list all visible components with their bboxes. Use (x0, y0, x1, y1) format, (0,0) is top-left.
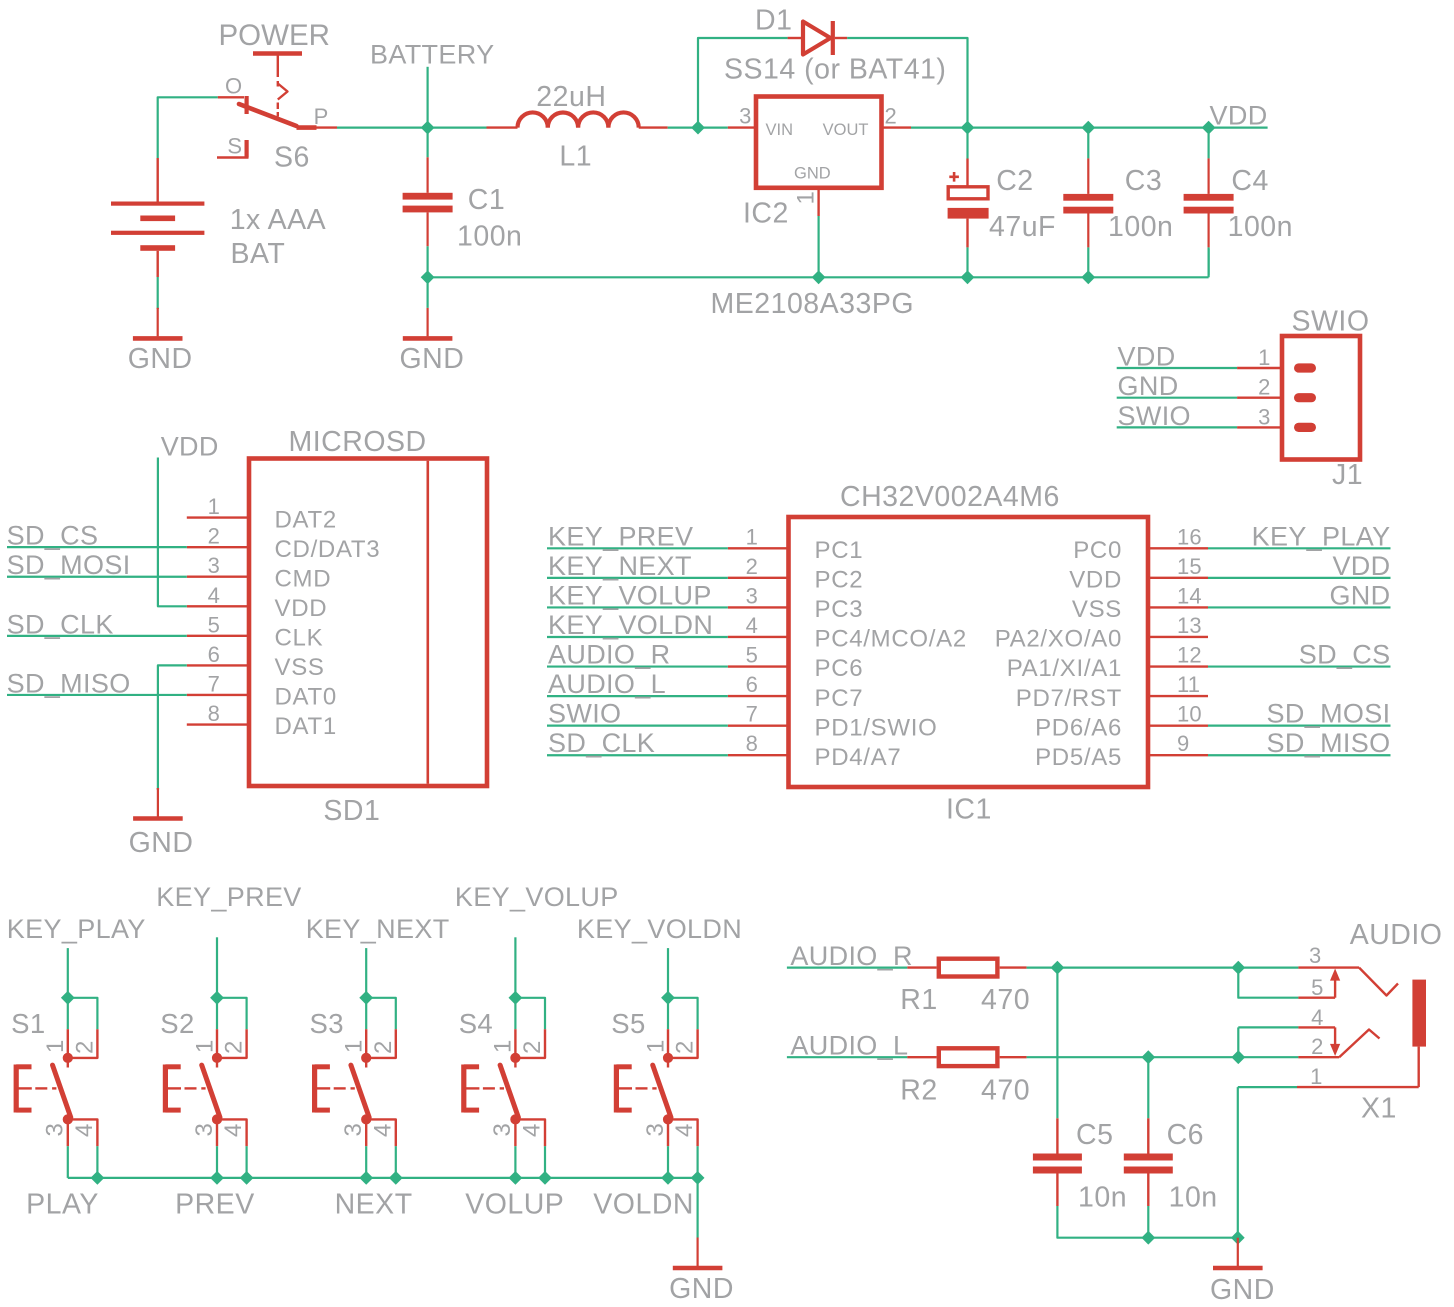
svg-text:SD_MOSI: SD_MOSI (7, 550, 131, 580)
switch S3 lever (351, 1065, 369, 1117)
svg-text:KEY_VOLDN: KEY_VOLDN (577, 914, 742, 944)
voltage regulator IC2 ME2108A33PG (756, 97, 882, 188)
svg-text:4: 4 (369, 1123, 396, 1137)
IC2 pin 3 VIN (728, 126, 756, 128)
svg-text:C1: C1 (468, 184, 505, 216)
wire net AUDIO_R to R1 (787, 966, 907, 968)
wire D1 cathode to VDD node (847, 38, 967, 128)
svg-text:6: 6 (746, 672, 758, 697)
svg-text:2: 2 (208, 524, 220, 549)
X1 pin 2 contact (1298, 1056, 1339, 1058)
resistor R1 470 (907, 966, 936, 968)
svg-text:1: 1 (42, 1039, 69, 1053)
svg-text:DAT0: DAT0 (275, 684, 337, 711)
svg-text:VOLUP: VOLUP (465, 1189, 564, 1221)
wire net KEY_VOLUP to IC1 pin 3 (547, 606, 728, 608)
wire AUDIO_L to C6 (1147, 1057, 1149, 1118)
svg-text:4: 4 (220, 1123, 247, 1137)
svg-text:14: 14 (1177, 583, 1202, 608)
IC1 pin 4 PC4/MCO/A2 (728, 636, 789, 638)
svg-text:100n: 100n (1228, 211, 1293, 243)
wire AUDIO_R to C5 (1056, 968, 1058, 1119)
svg-text:VDD: VDD (275, 595, 328, 622)
svg-text:S1: S1 (11, 1008, 45, 1039)
svg-text:AUDIO_R: AUDIO_R (548, 640, 670, 670)
diode D1 (788, 37, 803, 39)
svg-text:8: 8 (746, 731, 758, 756)
svg-text:PC2: PC2 (815, 567, 864, 594)
svg-text:PD4/A7: PD4/A7 (815, 744, 902, 771)
inductor L1 22uH (487, 126, 518, 128)
capacitor C2 47uF polarized (966, 128, 968, 159)
svg-text:VSS: VSS (275, 654, 325, 681)
wire net SD_MISO to IC1 pin 9 (1208, 754, 1391, 756)
X1 pin 4 contact with down arrow (1238, 1026, 1298, 1028)
J1 pin 2 (1237, 397, 1282, 399)
svg-text:S3: S3 (310, 1008, 344, 1039)
svg-text:CMD: CMD (275, 565, 332, 592)
svg-text:KEY_PLAY: KEY_PLAY (7, 914, 146, 944)
IC1 pin 15 VDD (1148, 577, 1208, 579)
IC1 pin 14 VSS (1148, 606, 1208, 608)
IC1 pin 12 PA1/XI/A1 (1148, 665, 1208, 667)
svg-text:1: 1 (191, 1039, 218, 1053)
wire C5 to gnd rail (1057, 1206, 1148, 1238)
svg-text:VDD: VDD (1332, 551, 1390, 581)
svg-text:S2: S2 (160, 1008, 194, 1039)
svg-text:5: 5 (746, 643, 758, 668)
wire L1 to IC2 VIN node (668, 126, 728, 128)
IC1 pin 11 PD7/RST (1148, 695, 1208, 697)
wire net VDD to J1 pin 1 (1117, 367, 1237, 369)
wire net KEY_PLAY to S1 (67, 948, 69, 998)
mcu IC1 CH32V002A4M6 (789, 517, 1149, 787)
wire net SD_CS to SD1 (7, 546, 187, 548)
svg-text:2: 2 (1311, 1034, 1323, 1059)
svg-text:PC6: PC6 (815, 655, 864, 682)
svg-text:3: 3 (746, 583, 758, 608)
wire net VDD label stub (1209, 126, 1268, 128)
junction S5 top node (661, 991, 675, 1005)
svg-text:100n: 100n (1108, 211, 1173, 243)
svg-text:47uF: 47uF (989, 211, 1056, 243)
svg-text:CH32V002A4M6: CH32V002A4M6 (840, 481, 1060, 513)
svg-text:SS14 (or BAT41): SS14 (or BAT41) (724, 54, 946, 86)
switch S4 pins (514, 1029, 516, 1053)
IC2 pin 2 VOUT (882, 126, 912, 128)
switch S2 lever (202, 1065, 220, 1117)
junction S3 top node (359, 991, 373, 1005)
wire net GND to IC1 pin 14 (1208, 606, 1391, 608)
junction S2 top node (210, 991, 224, 1005)
wire R2 to X1 pin2 (1027, 1056, 1299, 1058)
svg-text:7: 7 (746, 702, 758, 727)
svg-text:3: 3 (191, 1122, 218, 1136)
svg-text:2: 2 (221, 1040, 248, 1054)
IC1 pin 8 PD4/A7 (728, 754, 789, 756)
connector J1 SWIO header (1282, 336, 1360, 460)
IC1 pin 5 PC6 (728, 665, 789, 667)
svg-text:J1: J1 (1332, 459, 1363, 491)
svg-text:SWIO: SWIO (1292, 306, 1370, 338)
X1 pin 5 contact with up arrow (1238, 968, 1298, 998)
svg-text:VSS: VSS (1072, 596, 1122, 623)
wire gnd rail C1 to C4 (428, 276, 1209, 278)
svg-text:9: 9 (1177, 731, 1189, 756)
SD1 pin 3 CMD (187, 576, 249, 578)
wire VDD rail C2 to C3 (968, 126, 1089, 128)
wire net KEY_VOLDN to S5 (667, 948, 669, 998)
junction S2 pin4 gnd rail (240, 1171, 254, 1185)
svg-text:KEY_VOLUP: KEY_VOLUP (455, 882, 619, 912)
svg-text:6: 6 (208, 642, 220, 667)
ground symbol GND audio (1237, 1238, 1239, 1267)
svg-text:1: 1 (208, 494, 220, 519)
svg-text:13: 13 (1177, 613, 1202, 638)
svg-text:MICROSD: MICROSD (289, 426, 427, 458)
svg-text:1: 1 (746, 524, 758, 549)
switch S4 actuator (461, 1065, 466, 1113)
switch S6 pin O (218, 96, 244, 98)
junction S1 pin4 gnd rail (91, 1171, 105, 1185)
switch S1 actuator (14, 1065, 19, 1113)
svg-text:12: 12 (1177, 643, 1202, 668)
svg-text:C2: C2 (996, 165, 1033, 197)
svg-text:P: P (314, 104, 329, 129)
wire battery- to ground (157, 277, 159, 309)
SD1 pin 7 DAT0 (187, 694, 249, 696)
wire net battery+ to switch O (158, 97, 218, 158)
svg-text:SWIO: SWIO (548, 699, 621, 729)
wire S4 pins to gnd rail (514, 1146, 516, 1178)
svg-text:3: 3 (42, 1122, 69, 1136)
resistor R2 470 (907, 1056, 936, 1058)
switch S5 pins (667, 1029, 669, 1053)
junction S3 pin3 gnd rail (359, 1171, 373, 1185)
svg-text:L1: L1 (559, 141, 592, 173)
svg-text:GND: GND (1329, 580, 1390, 610)
ground symbol GND buttons (696, 1238, 698, 1267)
svg-text:VOLDN: VOLDN (593, 1189, 694, 1221)
wire S3 pin1 pin2 feed (366, 998, 396, 1029)
svg-text:O: O (225, 74, 242, 99)
svg-text:1: 1 (793, 190, 820, 204)
junction IC2 gnd node (812, 270, 826, 284)
svg-text:1: 1 (1310, 1064, 1322, 1089)
wire X1 pin4 to AUDIO_L node (1237, 1027, 1239, 1057)
svg-text:3: 3 (1258, 404, 1270, 429)
capacitor C6 10n (1147, 1118, 1149, 1153)
svg-text:PC7: PC7 (815, 685, 864, 712)
svg-text:GND: GND (1118, 371, 1179, 401)
wire net SD_CS to IC1 pin 12 (1208, 665, 1391, 667)
svg-text:IC1: IC1 (946, 794, 992, 826)
svg-text:SD_MISO: SD_MISO (1267, 728, 1391, 758)
svg-text:VOUT: VOUT (823, 121, 869, 139)
J1 pin 1 (1237, 367, 1282, 369)
wire net VDD to SD1 pin 4 (158, 458, 187, 607)
wire S1 pin1 pin2 feed (68, 998, 98, 1029)
svg-text:GND: GND (129, 827, 194, 859)
wire D1 anode branch (698, 38, 788, 128)
wire net SD_MISO to SD1 (7, 694, 187, 696)
switch S4 lever (500, 1065, 518, 1117)
svg-text:S5: S5 (611, 1008, 645, 1039)
IC1 pin 10 PD6/A6 (1148, 724, 1208, 726)
svg-text:GND: GND (128, 343, 193, 375)
IC1 pin 16 PC0 (1148, 547, 1208, 549)
wire net KEY_PREV to S2 (216, 937, 218, 998)
svg-text:GND: GND (669, 1273, 734, 1305)
SD1 pin 2 CD/DAT3 (187, 546, 249, 548)
power supply symbol POWER (253, 51, 302, 55)
svg-text:S: S (227, 134, 242, 159)
svg-text:PA1/XI/A1: PA1/XI/A1 (1007, 655, 1122, 682)
svg-text:NEXT: NEXT (335, 1189, 413, 1221)
svg-text:SD1: SD1 (323, 795, 380, 827)
switch S5 lever (653, 1065, 671, 1117)
svg-text:C6: C6 (1167, 1119, 1204, 1151)
svg-text:3: 3 (208, 553, 220, 578)
X1 pin 3 contact (1298, 966, 1359, 968)
wire gnd rail riser to C4 (1207, 249, 1209, 278)
svg-text:VIN: VIN (766, 121, 794, 139)
wire net AUDIO_L to R2 (787, 1056, 907, 1058)
wire audio gnd rail (1148, 1237, 1238, 1239)
svg-text:10n: 10n (1169, 1182, 1218, 1214)
wire X1 pin1 to gnd rail (1237, 1087, 1239, 1238)
svg-text:PD5/A5: PD5/A5 (1035, 744, 1122, 771)
svg-text:KEY_PREV: KEY_PREV (548, 521, 693, 551)
junction S4 pin4 gnd rail (538, 1171, 552, 1185)
svg-text:4: 4 (519, 1123, 546, 1137)
SD1 pin 1 DAT2 (187, 516, 249, 518)
wire buttons gnd rail (68, 1177, 698, 1179)
wire BATTERY label stub (427, 67, 429, 128)
svg-text:4: 4 (1311, 1005, 1323, 1030)
wire net KEY_VOLDN to IC1 pin 4 (547, 636, 728, 638)
svg-text:16: 16 (1177, 524, 1202, 549)
svg-text:PC0: PC0 (1073, 537, 1122, 564)
wire S2 pins to gnd rail (216, 1146, 218, 1178)
svg-text:PD1/SWIO: PD1/SWIO (815, 714, 938, 741)
svg-text:100n: 100n (457, 221, 522, 253)
junction S5 pin3 gnd rail (661, 1171, 675, 1185)
svg-text:KEY_VOLUP: KEY_VOLUP (548, 580, 712, 610)
wire S4 pin1 pin2 feed (515, 998, 545, 1029)
svg-text:PA2/XO/A0: PA2/XO/A0 (995, 626, 1122, 653)
wire net AUDIO_L to IC1 pin 6 (547, 695, 728, 697)
svg-text:15: 15 (1177, 554, 1202, 579)
svg-text:BAT: BAT (231, 238, 286, 270)
IC1 pin 13 PA2/XO/A0 (1148, 636, 1208, 638)
wire R1 to X1 pin3 (1027, 966, 1299, 968)
svg-text:PD6/A6: PD6/A6 (1035, 714, 1122, 741)
X1 pin 1 sleeve connection (1238, 1086, 1297, 1088)
wire top rail junction to L1 (428, 126, 487, 128)
IC2 pin 1 GND (817, 190, 819, 216)
junction S4 pin3 gnd rail (509, 1171, 523, 1185)
svg-text:10: 10 (1177, 702, 1202, 727)
svg-text:ME2108A33PG: ME2108A33PG (711, 288, 915, 320)
svg-text:SWIO: SWIO (1118, 401, 1191, 431)
junction VDD node C2 (961, 121, 975, 135)
svg-text:4: 4 (746, 613, 758, 638)
svg-text:3: 3 (489, 1122, 516, 1136)
IC1 pin 9 PD5/A5 (1148, 754, 1208, 756)
svg-text:2: 2 (370, 1040, 397, 1054)
svg-text:DAT1: DAT1 (275, 713, 337, 740)
switch S3 pins (365, 1029, 367, 1053)
capacitor C1 100n (427, 130, 429, 157)
svg-text:4: 4 (671, 1123, 698, 1137)
wire net KEY_NEXT to S3 (365, 948, 367, 998)
wire S5 pins to gnd rail (667, 1146, 669, 1178)
svg-text:4: 4 (71, 1123, 98, 1137)
wire C6 to gnd rail (1147, 1206, 1149, 1238)
svg-text:VDD: VDD (161, 432, 219, 462)
IC1 pin 1 PC1 (728, 547, 789, 549)
svg-text:S4: S4 (459, 1008, 493, 1039)
svg-text:SD_MOSI: SD_MOSI (1267, 699, 1391, 729)
switch S6 pin S (245, 140, 249, 158)
microsd socket SD1 MICROSD (249, 459, 487, 787)
svg-text:POWER: POWER (219, 19, 330, 52)
svg-text:CLK: CLK (275, 625, 324, 652)
svg-text:GND: GND (1210, 1274, 1275, 1306)
junction S2 pin3 gnd rail (210, 1171, 224, 1185)
battery BAT 1x AAA (156, 158, 158, 202)
svg-text:KEY_VOLDN: KEY_VOLDN (548, 610, 713, 640)
switch S5 actuator (614, 1065, 619, 1113)
SD1 pin 5 CLK (187, 635, 249, 637)
svg-text:470: 470 (981, 1075, 1030, 1107)
junction C1 gnd rail (421, 270, 435, 284)
svg-text:R2: R2 (900, 1075, 937, 1107)
svg-text:AUDIO: AUDIO (1350, 919, 1443, 951)
svg-text:KEY_NEXT: KEY_NEXT (306, 914, 450, 944)
IC1 pin 7 PD1/SWIO (728, 724, 789, 726)
switch S3 actuator (312, 1065, 317, 1113)
junction VDD node C4 (1202, 121, 1216, 135)
svg-text:1: 1 (1258, 345, 1270, 370)
svg-text:R1: R1 (900, 984, 937, 1016)
switch S2 pins (216, 1029, 218, 1053)
svg-text:8: 8 (208, 701, 220, 726)
svg-text:2: 2 (746, 554, 758, 579)
svg-text:5: 5 (208, 612, 220, 637)
wire VDD rail C3 to C4 (1088, 126, 1208, 128)
junction C6 gnd node (1141, 1231, 1155, 1245)
wire net SD_MOSI to SD1 (7, 576, 187, 578)
ground symbol GND C1 (427, 277, 429, 308)
svg-text:VDD: VDD (1118, 342, 1176, 372)
wire net KEY_VOLUP to S4 (514, 937, 516, 998)
svg-text:5: 5 (1311, 975, 1323, 1000)
svg-text:C4: C4 (1231, 165, 1268, 197)
wire SD1 VSS to ground (158, 665, 187, 789)
switch S6 pin P (317, 126, 338, 128)
svg-text:4: 4 (208, 583, 220, 608)
svg-text:1: 1 (642, 1039, 669, 1053)
wire net SWIO to IC1 pin 7 (547, 725, 728, 727)
svg-text:PC1: PC1 (815, 537, 864, 564)
wire net SD_MOSI to IC1 pin 10 (1208, 725, 1391, 727)
junction audio gnd node (1231, 1231, 1245, 1245)
svg-text:SD_CLK: SD_CLK (7, 609, 114, 639)
IC1 pin 3 PC3 (728, 606, 789, 608)
wire net AUDIO_R to IC1 pin 5 (547, 665, 728, 667)
svg-text:PREV: PREV (175, 1189, 255, 1221)
junction AUDIO_R C5 node (1051, 961, 1065, 975)
IC1 pin 6 PC7 (728, 695, 789, 697)
junction L1 out node (691, 121, 705, 135)
svg-text:2: 2 (519, 1040, 546, 1054)
svg-text:CD/DAT3: CD/DAT3 (275, 536, 381, 563)
wire net VDD to IC1 pin 15 (1208, 577, 1391, 579)
wire net KEY_PREV to IC1 pin 1 (547, 547, 728, 549)
svg-text:SD_CLK: SD_CLK (548, 728, 655, 758)
svg-text:PC4/MCO/A2: PC4/MCO/A2 (815, 626, 967, 653)
svg-text:1: 1 (490, 1039, 517, 1053)
J1 pin 3 (1237, 426, 1282, 428)
svg-text:DAT2: DAT2 (275, 506, 337, 533)
junction VDD node C3 (1081, 121, 1095, 135)
wire buttons gnd drop (696, 1178, 698, 1238)
svg-text:BATTERY: BATTERY (370, 40, 494, 70)
switch S2 actuator (163, 1065, 168, 1113)
svg-text:11: 11 (1177, 672, 1200, 697)
junction AUDIO_R X1 node (1231, 961, 1245, 975)
svg-text:2: 2 (71, 1040, 98, 1054)
svg-text:D1: D1 (755, 5, 792, 37)
svg-text:2: 2 (1258, 375, 1270, 400)
wire net KEY_PLAY to IC1 pin 16 (1208, 547, 1391, 549)
junction C3 gnd node (1081, 270, 1095, 284)
wire S5 pin1 pin2 feed (668, 998, 698, 1029)
wire net SWIO to J1 pin 3 (1117, 426, 1237, 428)
svg-text:S6: S6 (274, 142, 310, 174)
junction AUDIO_L X1 node (1231, 1050, 1245, 1064)
X1 sleeve (1412, 980, 1426, 1047)
wire net GND to J1 pin 2 (1117, 397, 1237, 399)
svg-text:VDD: VDD (1210, 101, 1268, 131)
junction AUDIO_L C6 node (1141, 1050, 1155, 1064)
capacitor C5 10n (1056, 1118, 1058, 1153)
svg-text:IC2: IC2 (743, 198, 789, 230)
svg-text:KEY_PLAY: KEY_PLAY (1252, 521, 1391, 551)
svg-text:PC3: PC3 (815, 596, 864, 623)
switch S6 actuator dashed link (277, 81, 279, 87)
SD1 pin 8 DAT1 (187, 723, 249, 725)
junction S5 pin4 gnd rail (691, 1171, 705, 1185)
junction C2 gnd node (961, 270, 975, 284)
svg-text:SD_CS: SD_CS (1299, 640, 1391, 670)
svg-text:GND: GND (400, 343, 465, 375)
svg-text:KEY_PREV: KEY_PREV (156, 882, 301, 912)
svg-text:22uH: 22uH (536, 81, 606, 113)
svg-text:GND: GND (794, 165, 831, 183)
svg-text:VDD: VDD (1069, 567, 1122, 594)
wire net KEY_NEXT to IC1 pin 2 (547, 577, 728, 579)
junction S4 top node (509, 991, 523, 1005)
svg-text:PD7/RST: PD7/RST (1016, 685, 1122, 712)
SD1 pin 4 VDD (187, 605, 249, 607)
IC1 pin 2 PC2 (728, 577, 789, 579)
wire S3 pins to gnd rail (365, 1146, 367, 1178)
capacitor C3 100n (1087, 129, 1089, 158)
svg-text:2: 2 (672, 1040, 699, 1054)
